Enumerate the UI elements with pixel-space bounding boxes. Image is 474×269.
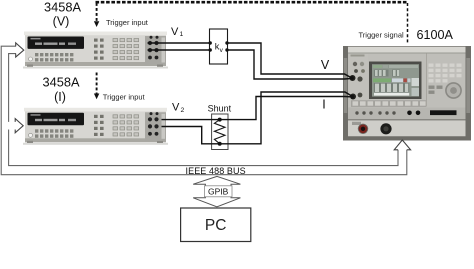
main case bbox=[348, 46, 466, 120]
node shunt top bbox=[218, 118, 222, 122]
red connector bbox=[358, 124, 368, 134]
svg-text:IEEE 488 BUS: IEEE 488 BUS bbox=[186, 166, 246, 176]
arrowhead trigger input (I) bbox=[94, 94, 99, 100]
svg-text:V: V bbox=[172, 102, 180, 114]
svg-text:3458A: 3458A bbox=[44, 0, 81, 15]
wire I lo: DMM(I) lo to shunt bottom to 6100A I terminal bbox=[162, 92, 353, 144]
svg-text:6100A: 6100A bbox=[417, 28, 454, 42]
node 6100A I terminal bbox=[351, 95, 355, 99]
GPIB label box bbox=[204, 186, 232, 197]
svg-text:(I): (I) bbox=[54, 90, 66, 104]
svg-text:I: I bbox=[322, 98, 325, 112]
trigger dashed vertical to 6100A bbox=[407, 3, 409, 45]
bus arrow into 3458A (V) bbox=[16, 43, 24, 57]
trigger dashed vertical to 3458A (V) bbox=[96, 3, 98, 22]
LCD screen bbox=[369, 62, 422, 100]
node kv left bottom bbox=[209, 48, 212, 51]
rack ear left bbox=[343, 46, 348, 141]
bottom dark strip bbox=[348, 136, 466, 140]
IEEE 488 bus outline trunk bbox=[1, 46, 407, 175]
svg-text:Trigger input: Trigger input bbox=[106, 18, 149, 27]
PC box bbox=[181, 208, 251, 242]
shunt resistor zigzag bbox=[214, 120, 225, 144]
svg-text:Shunt: Shunt bbox=[208, 104, 232, 114]
node 6100A V terminal bbox=[350, 76, 354, 80]
GPIB double arrow bbox=[193, 176, 240, 206]
wire I hi: shunt top node to DMM(I) and 6100A I terminal bbox=[162, 97, 353, 120]
lower connector strip bbox=[348, 108, 466, 120]
svg-text:(V): (V) bbox=[53, 15, 70, 29]
svg-text:Trigger input: Trigger input bbox=[103, 92, 146, 101]
svg-text:GPIB: GPIB bbox=[208, 186, 229, 196]
multimeter 3458A (I) bbox=[23, 108, 168, 145]
wire V1 hi: DMM(V) to kv to 6100A V terminal bbox=[148, 43, 352, 78]
svg-text:Trigger signal: Trigger signal bbox=[359, 30, 404, 39]
bus arrow into 3458A (I) bbox=[15, 119, 23, 133]
wire V1 lo: DMM(V) to kv to 6100A V terminal bbox=[148, 50, 352, 79]
voltage divider kv box bbox=[210, 29, 228, 64]
svg-text:V: V bbox=[321, 58, 330, 72]
node kv left top bbox=[209, 41, 212, 44]
shunt box bbox=[212, 114, 228, 150]
multimeter 3458A (V) bbox=[23, 32, 168, 69]
function key row bbox=[351, 100, 426, 107]
svg-text:3458A: 3458A bbox=[42, 75, 79, 90]
groove between units bbox=[348, 119, 466, 121]
node kv right bottom bbox=[225, 48, 228, 51]
rack ear right bbox=[466, 46, 472, 141]
auxiliary front panel bbox=[348, 121, 466, 137]
trigger bus dashed horizontal line bbox=[96, 1, 408, 4]
left terminal column bbox=[349, 54, 368, 107]
svg-text:PC: PC bbox=[205, 217, 227, 234]
rotary knob bbox=[445, 82, 462, 99]
node kv right top bbox=[225, 41, 228, 44]
arrowhead trigger input (V) bbox=[94, 21, 99, 27]
svg-text:2: 2 bbox=[181, 107, 185, 114]
black connector bbox=[380, 123, 391, 134]
bus arrow into 6100A bbox=[394, 140, 410, 150]
svg-text:1: 1 bbox=[180, 31, 184, 38]
svg-text:V: V bbox=[171, 26, 179, 38]
keypad bbox=[429, 64, 462, 83]
power standard 6100A bbox=[343, 46, 471, 141]
trigger dashed vertical to 3458A (I) bbox=[96, 73, 98, 94]
node shunt bottom bbox=[218, 142, 222, 146]
